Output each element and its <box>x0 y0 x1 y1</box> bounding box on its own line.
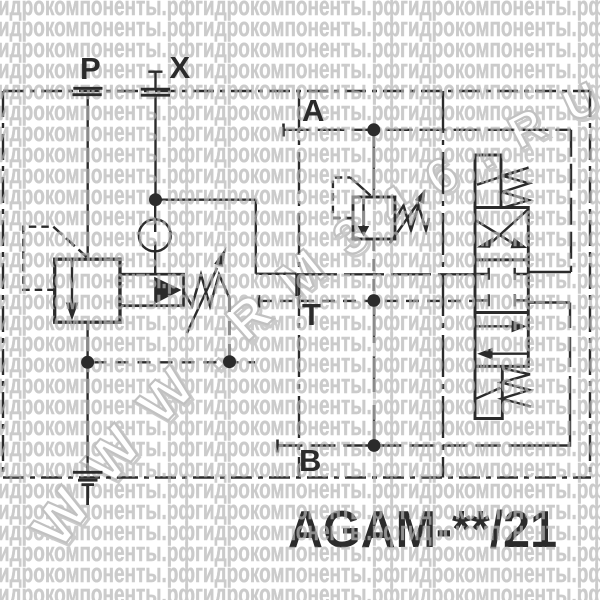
wire A line <box>284 129 572 131</box>
adjustment arrow A2 head <box>415 189 425 204</box>
adjustment arrow A1 <box>187 268 217 333</box>
node drain junction 1 <box>81 356 94 369</box>
port T terminal tick <box>258 295 261 308</box>
enclosure boundary frame right <box>589 91 591 478</box>
spring S4 bottom <box>501 368 531 407</box>
wire drain dashed horizontal <box>94 361 256 363</box>
DV1 center blocked port top-right <box>515 268 529 280</box>
wire A junction down to pilot relief <box>373 136 375 197</box>
wire valve right-bottom port to B loop <box>528 301 570 303</box>
orifice O1 circle <box>139 219 171 251</box>
svg-text:T: T <box>302 297 321 332</box>
svg-text:X: X <box>170 50 191 85</box>
pilot relief valve internal arrowhead <box>358 226 369 237</box>
node T junction <box>367 294 380 307</box>
main relief pilot diagonal into top <box>53 227 86 257</box>
spring S3 top <box>477 168 529 208</box>
port A terminal tick <box>282 124 285 137</box>
node drain junction 2 <box>223 355 236 368</box>
pilot relief valve internal arrow <box>362 199 364 228</box>
DV1 crossed arrowhead 2 <box>511 238 528 248</box>
enclosure boundary frame bottom <box>3 476 591 478</box>
spring S1 <box>184 275 230 307</box>
pilot poppet solid triangle <box>154 277 181 304</box>
DV1 bottom box right arrowhead <box>512 320 527 332</box>
wire A loop right vertical <box>570 130 572 272</box>
main relief pilot dashed loop <box>23 227 54 290</box>
wire A loop into valve <box>528 271 571 273</box>
wire T junction to B junction <box>373 307 375 440</box>
tank symbol T1 <box>73 472 103 505</box>
node A junction <box>367 123 380 136</box>
wire X port down to junction <box>154 95 156 193</box>
DV1 bottom box left flow line <box>492 353 527 355</box>
DV1 bottom box right flow line <box>476 325 512 327</box>
DV1 bottom pilot cap <box>475 366 502 418</box>
DV1 bottom box left arrowhead <box>477 348 492 360</box>
enclosure boundary frame left <box>2 91 4 478</box>
wire P port down to main valve <box>86 95 88 259</box>
wire pilot relief drain dashed <box>373 239 375 294</box>
DV1 crossed path diagonal 1 <box>492 210 528 243</box>
wire through orifice <box>154 206 156 274</box>
wire B loop solid <box>529 406 571 446</box>
port X plug <box>148 72 162 89</box>
port P flange symbol <box>73 88 103 94</box>
wire pilot loop to P line <box>256 274 297 296</box>
main relief valve arrowhead <box>66 303 79 321</box>
wire T line dashed <box>259 300 475 302</box>
boundary divider between left and middle block <box>298 91 300 478</box>
svg-text:A: A <box>302 93 324 128</box>
wire B loop dashed upper <box>569 303 571 407</box>
wire pilot loop down <box>255 200 257 274</box>
node X pilot junction <box>149 193 162 206</box>
wire P line across middle block <box>297 273 475 275</box>
DV1 center blocked port bottom-right <box>515 294 529 306</box>
node B junction <box>368 439 381 452</box>
svg-text:B: B <box>299 443 321 478</box>
wire pilot junction to right <box>161 198 256 200</box>
pilot relief valve V2 body <box>353 197 395 239</box>
DV1 crossed path diagonal 2 <box>476 221 512 243</box>
pilot stage box <box>120 274 184 306</box>
spring S4 interior diagonal <box>476 388 500 399</box>
pilot relief diagonal into top <box>350 178 370 196</box>
adjustment arrow A1 head <box>214 247 226 267</box>
spring S2 <box>396 206 429 231</box>
wire B line <box>278 444 529 446</box>
wire spring chamber drain dashed <box>228 298 230 356</box>
main relief valve V1 body <box>55 259 120 322</box>
svg-text:P: P <box>80 51 101 86</box>
directional valve body DV1 <box>475 208 528 367</box>
wire main valve bottom to tank <box>86 322 88 472</box>
DV1 crossed arrowhead 1 <box>477 237 494 248</box>
boundary divider between middle and right block <box>442 91 444 478</box>
DV1 center blocked port bottom-left <box>476 294 488 306</box>
enclosure boundary frame top <box>3 90 590 92</box>
port B terminal tick <box>276 440 279 453</box>
port X flange symbol <box>141 89 170 95</box>
pilot relief dashed sensing loop <box>333 178 353 219</box>
DV1 top pilot cap <box>475 155 501 208</box>
DV1 center blocked port top-left <box>476 268 488 280</box>
adjustment arrow A2 <box>390 203 418 243</box>
main relief valve internal flow arrow <box>71 261 73 303</box>
